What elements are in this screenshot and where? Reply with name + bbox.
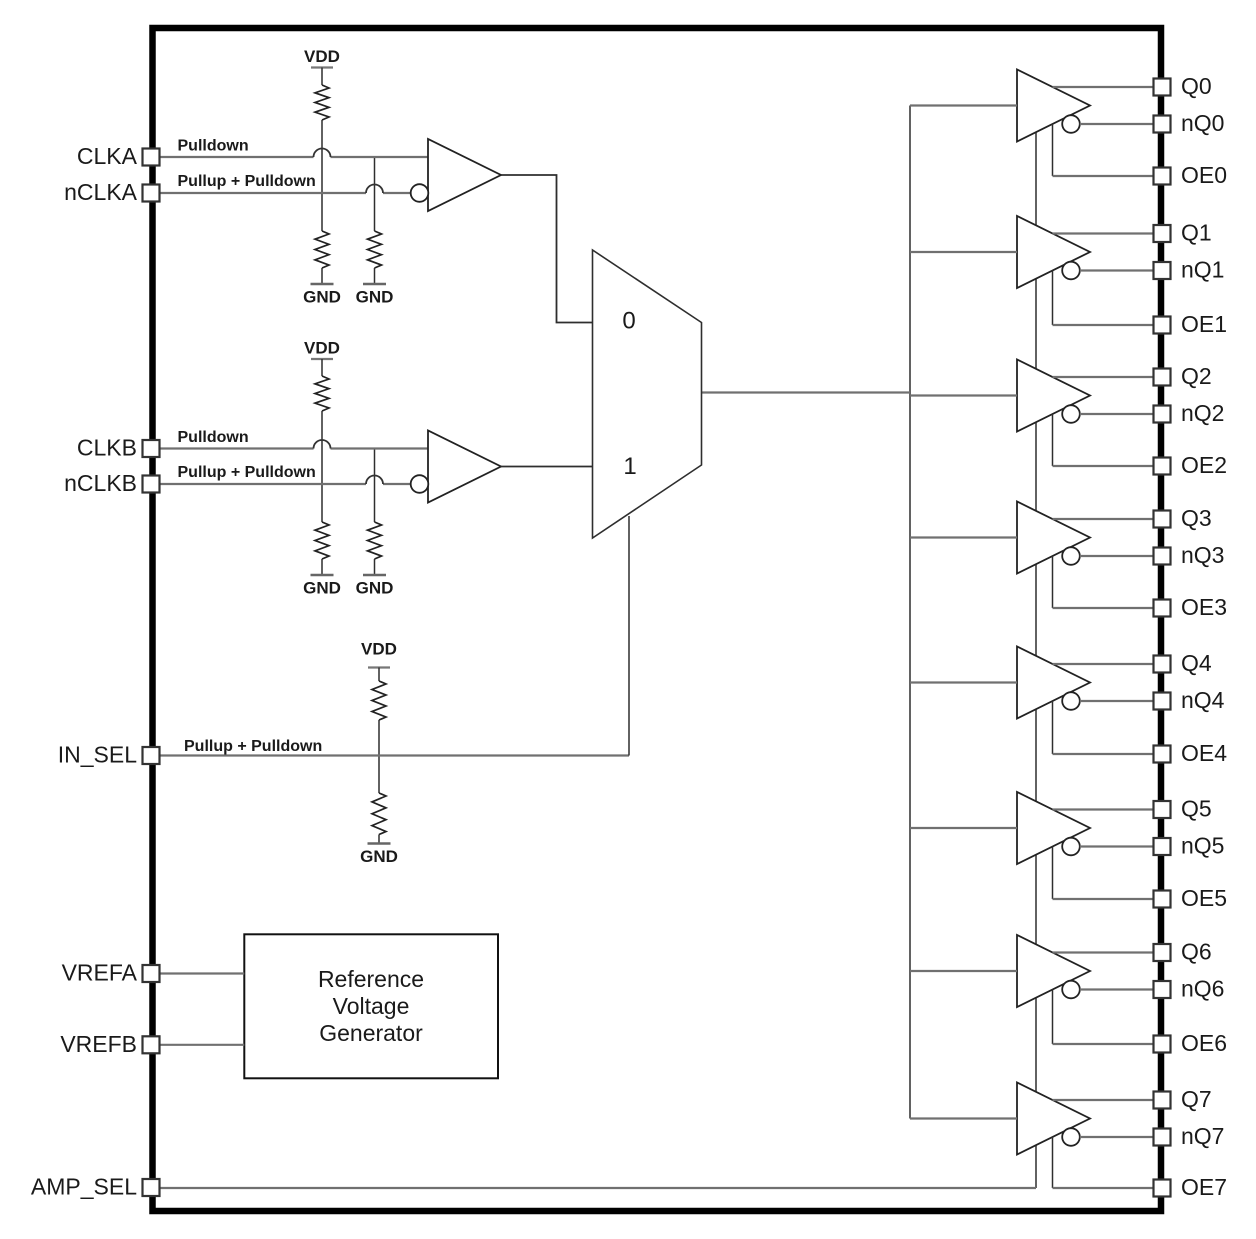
inverting bubble buffer U2: [1062, 405, 1080, 423]
wire Q5 output: [1053, 808, 1154, 810]
wire OE6 vertical: [1052, 990, 1054, 1045]
svg-text:VDD: VDD: [304, 47, 340, 66]
wire VREFA: [160, 972, 244, 974]
svg-text:VREFA: VREFA: [62, 960, 138, 986]
wire resistor A1 to GND: [321, 268, 323, 284]
output buffer U1: [1017, 216, 1090, 288]
wire OE0 vertical: [1052, 124, 1054, 176]
svg-text:Pullup + Pulldown: Pullup + Pulldown: [178, 464, 316, 481]
wire OE5 horizontal: [1053, 898, 1154, 900]
output buffer U0: [1017, 70, 1090, 142]
svg-text:Q5: Q5: [1181, 796, 1212, 822]
svg-text:Pulldown: Pulldown: [178, 429, 249, 446]
wire resistor B1 to GND: [321, 559, 323, 575]
svg-text:OE7: OE7: [1181, 1174, 1227, 1200]
pin Q6: [1154, 944, 1171, 961]
wire nQ6 output: [1080, 988, 1153, 990]
wire OE2 vertical: [1052, 414, 1054, 466]
svg-text:Reference: Reference: [318, 966, 424, 992]
svg-text:OE3: OE3: [1181, 594, 1227, 620]
resistor pulldown CLKA: [368, 231, 382, 268]
wire buffer U4 input: [910, 681, 1017, 683]
inverting bubble buffer U7: [1062, 1128, 1080, 1146]
resistor pulldown CLKB: [368, 522, 382, 559]
wire pullup A down (crosses CLKA) to nCLKA: [321, 120, 323, 231]
inverting bubble buffer A: [411, 184, 429, 202]
svg-text:Voltage: Voltage: [333, 993, 410, 1019]
ground GND B1: [311, 574, 334, 576]
wire buffer U1 input: [910, 251, 1017, 253]
wire Q3 output: [1053, 518, 1154, 520]
pin nCLKB: [143, 476, 160, 493]
inverting bubble buffer U3: [1062, 547, 1080, 565]
pin OE3: [1154, 600, 1171, 617]
svg-text:nQ2: nQ2: [1181, 400, 1224, 426]
output buffer U7: [1017, 1083, 1090, 1155]
ground GND B2: [363, 574, 386, 576]
svg-text:nQ3: nQ3: [1181, 542, 1224, 568]
svg-text:nQ0: nQ0: [1181, 110, 1224, 136]
wire OE5 vertical: [1052, 847, 1054, 900]
inverting bubble buffer B: [411, 475, 429, 493]
wire AMP_SEL vertical bus: [1035, 106, 1037, 1189]
svg-text:VDD: VDD: [361, 640, 397, 659]
wire OE4 horizontal: [1053, 753, 1154, 755]
svg-text:nQ4: nQ4: [1181, 687, 1225, 713]
pin Q2: [1154, 369, 1171, 386]
inverting bubble buffer U4: [1062, 692, 1080, 710]
wire buffer U7 input: [910, 1117, 1017, 1119]
pin CLKA: [143, 149, 160, 166]
svg-text:OE2: OE2: [1181, 452, 1227, 478]
svg-text:Q1: Q1: [1181, 220, 1212, 246]
svg-text:0: 0: [622, 308, 635, 335]
svg-text:GND: GND: [303, 288, 341, 307]
pin OE0: [1154, 168, 1171, 185]
wire VDD IN_SEL to resistor: [378, 668, 380, 682]
svg-text:CLKB: CLKB: [77, 435, 137, 461]
wire CLKB input: [160, 447, 428, 449]
wire OE7 horizontal: [1053, 1187, 1154, 1189]
svg-text:Pullup + Pulldown: Pullup + Pulldown: [184, 738, 322, 755]
wire Q7 output: [1053, 1099, 1154, 1101]
wire buffer A output to mux input 0: [501, 175, 593, 323]
ground GND A1: [311, 283, 334, 285]
svg-text:OE0: OE0: [1181, 162, 1227, 188]
resistor pullup A: [315, 85, 329, 120]
pin Q0: [1154, 79, 1171, 96]
wire CLKB pulldown vertical: [374, 449, 376, 523]
output buffer U2: [1017, 360, 1090, 432]
wire Q6 output: [1053, 951, 1154, 953]
wire nCLKA input: [160, 192, 411, 194]
pin CLKB: [143, 440, 160, 457]
svg-text:VREFB: VREFB: [60, 1031, 137, 1057]
wire pullup B down (crosses CLKB) to nCLKB: [321, 411, 323, 522]
wire resistor B2 to GND: [374, 559, 376, 575]
mux clock select: [593, 250, 702, 538]
pin nQ4: [1154, 693, 1171, 710]
output buffer U4: [1017, 647, 1090, 719]
svg-text:CLKA: CLKA: [77, 143, 138, 169]
wire VDD B to resistor: [321, 359, 323, 376]
inverting bubble buffer U1: [1062, 262, 1080, 280]
svg-text:GND: GND: [356, 579, 394, 598]
pin nCLKA: [143, 185, 160, 202]
wire OE1 horizontal: [1053, 324, 1154, 326]
wire Q2 output: [1053, 376, 1154, 378]
pin Q7: [1154, 1092, 1171, 1109]
pin nQ3: [1154, 548, 1171, 565]
wire OE7 vertical: [1052, 1137, 1054, 1188]
pin OE6: [1154, 1036, 1171, 1053]
wire nQ2 output: [1080, 413, 1153, 415]
svg-text:Q7: Q7: [1181, 1086, 1212, 1112]
wire IN_SEL input: [160, 754, 629, 756]
inverting bubble buffer U6: [1062, 981, 1080, 999]
wire resistor to GND: [378, 835, 380, 844]
pin nQ6: [1154, 981, 1171, 998]
wire OE6 horizontal: [1053, 1043, 1154, 1045]
svg-text:GND: GND: [360, 847, 398, 866]
wire buffer B output to mux input 1: [501, 466, 593, 468]
wire Q1 output: [1053, 232, 1154, 234]
wire IN_SEL to pulldown resistor: [378, 756, 380, 794]
pin nQ2: [1154, 406, 1171, 423]
wire OE0 horizontal: [1053, 175, 1154, 177]
wire OE4 vertical: [1052, 701, 1054, 754]
wire OE3 vertical: [1052, 556, 1054, 608]
svg-text:Q6: Q6: [1181, 939, 1212, 965]
pin nQ1: [1154, 262, 1171, 279]
wire Q0 output: [1053, 86, 1154, 88]
output buffer U5: [1017, 792, 1090, 864]
input buffer A: [428, 139, 501, 211]
svg-text:Pulldown: Pulldown: [178, 138, 249, 155]
output buffer U6: [1017, 935, 1090, 1007]
svg-text:OE4: OE4: [1181, 740, 1227, 766]
pin OE5: [1154, 891, 1171, 908]
svg-text:OE1: OE1: [1181, 311, 1227, 337]
inverting bubble buffer U0: [1062, 115, 1080, 133]
pin OE7: [1154, 1180, 1171, 1197]
output buffer U3: [1017, 502, 1090, 574]
svg-text:Pullup + Pulldown: Pullup + Pulldown: [178, 173, 316, 190]
wire OE1 vertical: [1052, 271, 1054, 326]
wire buffer U5 input: [910, 827, 1017, 829]
wire AMP_SEL horizontal: [160, 1187, 1036, 1189]
pin nQ7: [1154, 1129, 1171, 1146]
svg-text:1: 1: [623, 453, 636, 480]
svg-text:AMP_SEL: AMP_SEL: [31, 1174, 137, 1200]
svg-text:nQ6: nQ6: [1181, 976, 1224, 1002]
svg-text:GND: GND: [303, 579, 341, 598]
block Reference Voltage Generator: [244, 934, 498, 1078]
resistor pulldown nCLKB: [315, 522, 329, 559]
resistor pulldown nCLKA: [315, 231, 329, 268]
svg-text:GND: GND: [356, 288, 394, 307]
wire IN_SEL to mux select: [628, 516, 630, 756]
svg-text:IN_SEL: IN_SEL: [58, 742, 137, 768]
ground GND IN_SEL: [368, 842, 391, 844]
pin OE4: [1154, 746, 1171, 763]
pin VREFB: [143, 1036, 160, 1053]
svg-text:Q3: Q3: [1181, 505, 1212, 531]
resistor pullup B: [315, 376, 329, 411]
wire buffer U3 input: [910, 536, 1017, 538]
resistor pulldown IN_SEL: [372, 793, 386, 835]
wire buffer U6 input: [910, 970, 1017, 972]
wire resistor A2 to GND: [374, 268, 376, 284]
svg-text:nQ7: nQ7: [1181, 1123, 1224, 1149]
svg-text:nQ1: nQ1: [1181, 257, 1224, 283]
pin nQ0: [1154, 116, 1171, 133]
svg-text:nQ5: nQ5: [1181, 833, 1224, 859]
wire nQ5 output: [1080, 845, 1153, 847]
wire nQ4 output: [1080, 700, 1153, 702]
wire nQ7 output: [1080, 1136, 1153, 1138]
pin IN_SEL: [143, 747, 160, 764]
wire nQ3 output: [1080, 555, 1153, 557]
pin OE1: [1154, 317, 1171, 334]
svg-text:OE5: OE5: [1181, 885, 1227, 911]
svg-text:nCLKA: nCLKA: [64, 179, 138, 205]
ground GND A2: [363, 283, 386, 285]
wire buffer U0 input: [910, 104, 1017, 106]
wire nQ0 output: [1080, 123, 1153, 125]
pin Q4: [1154, 656, 1171, 673]
wire Q4 output: [1053, 663, 1154, 665]
pin AMP_SEL: [143, 1179, 160, 1196]
svg-text:nCLKB: nCLKB: [64, 470, 137, 496]
wire OE3 horizontal: [1053, 607, 1154, 609]
wire mux output: [702, 391, 911, 393]
wire buffer U2 input: [910, 394, 1017, 396]
input buffer B: [428, 431, 501, 503]
pin Q5: [1154, 801, 1171, 818]
wire CLKA input: [160, 156, 428, 158]
wire VDD A to resistor: [321, 68, 323, 86]
pin Q3: [1154, 511, 1171, 528]
svg-text:Q2: Q2: [1181, 363, 1212, 389]
inverting bubble buffer U5: [1062, 838, 1080, 856]
wire output bus vertical: [909, 106, 911, 1119]
chip boundary: [153, 28, 1162, 1211]
svg-text:VDD: VDD: [304, 339, 340, 358]
wire nCLKB input: [160, 483, 411, 485]
resistor pullup IN_SEL: [372, 681, 386, 720]
pin VREFA: [143, 965, 160, 982]
svg-text:Q4: Q4: [1181, 650, 1212, 676]
wire resistor to IN_SEL wire: [378, 720, 380, 756]
pin Q1: [1154, 225, 1171, 242]
pin OE2: [1154, 458, 1171, 475]
svg-text:Generator: Generator: [319, 1020, 423, 1046]
svg-text:Q0: Q0: [1181, 73, 1212, 99]
wire VREFB: [160, 1044, 244, 1046]
wire CLKA pulldown vertical: [374, 157, 376, 231]
wire OE2 horizontal: [1053, 465, 1154, 467]
pin nQ5: [1154, 838, 1171, 855]
wire nQ1 output: [1080, 269, 1153, 271]
svg-text:OE6: OE6: [1181, 1030, 1227, 1056]
